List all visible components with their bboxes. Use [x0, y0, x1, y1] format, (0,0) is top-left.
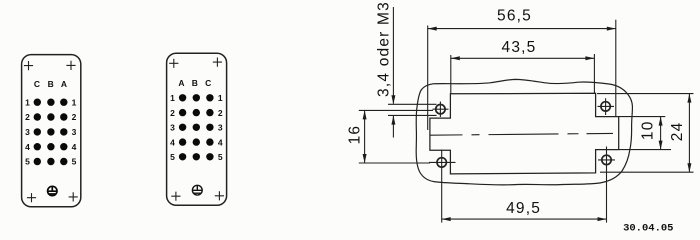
- dimension 56,5 lines and arrows: [428, 20, 616, 130]
- left connector pin contacts row 5: [34, 158, 68, 165]
- dimension 16 lines and arrows: [359, 110, 433, 163]
- panel cutout outline (stepped rectangle with side slots): [430, 93, 619, 174]
- svg-text:C: C: [205, 78, 211, 88]
- svg-text:A: A: [61, 79, 67, 89]
- svg-text:56,5: 56,5: [497, 7, 532, 24]
- dimension 24 lines and arrows: [597, 94, 694, 173]
- right connector corner mark bottom-left: [171, 192, 180, 201]
- svg-text:1: 1: [218, 93, 223, 103]
- svg-text:49,5: 49,5: [506, 200, 541, 217]
- svg-text:10: 10: [640, 120, 657, 140]
- svg-text:3: 3: [170, 123, 175, 133]
- svg-text:4: 4: [170, 137, 175, 147]
- right connector corner mark top-left: [169, 59, 178, 68]
- dimension 3,4 oder M3 leader lines and arrows: [388, 7, 437, 138]
- svg-text:B: B: [192, 78, 198, 88]
- left connector corner mark bottom-right: [69, 192, 78, 201]
- left connector earth ground symbol: [48, 186, 57, 195]
- mounting hole top-left: [433, 102, 449, 118]
- svg-text:1: 1: [25, 97, 30, 107]
- mounting hole bottom-right: [598, 147, 615, 173]
- left connector body outline: [22, 55, 81, 207]
- right connector row numbers right side: [218, 93, 223, 162]
- right connector column labels A B C: [178, 78, 211, 88]
- svg-text:5: 5: [218, 152, 223, 162]
- svg-text:1: 1: [170, 93, 175, 103]
- svg-text:16: 16: [346, 125, 363, 145]
- left connector pin contacts row 1: [34, 99, 68, 106]
- left connector pin contacts row 2: [34, 113, 68, 120]
- centerline (dashed): [431, 133, 614, 135]
- svg-text:2: 2: [72, 112, 77, 122]
- svg-text:24: 24: [669, 122, 686, 142]
- svg-text:2: 2: [25, 112, 30, 122]
- svg-text:5: 5: [25, 157, 30, 167]
- left connector corner mark top-right: [66, 61, 75, 70]
- left connector corner mark top-left: [24, 61, 33, 70]
- svg-text:C: C: [34, 79, 40, 89]
- svg-text:30.04.05: 30.04.05: [623, 223, 673, 235]
- left connector row numbers right side: [72, 97, 77, 166]
- right connector corner mark bottom-right: [215, 191, 224, 200]
- left connector corner mark bottom-left: [27, 193, 36, 202]
- right connector row numbers left side: [170, 93, 175, 162]
- svg-text:3: 3: [25, 127, 30, 137]
- right connector body outline: [167, 53, 227, 205]
- left connector pin contacts row 3: [34, 128, 68, 135]
- right connector pin contacts row 3: [179, 124, 214, 131]
- svg-text:1: 1: [72, 97, 77, 107]
- right connector pin contacts row 4: [179, 138, 214, 145]
- svg-text:4: 4: [72, 142, 77, 152]
- svg-text:3: 3: [218, 123, 223, 133]
- svg-text:4: 4: [218, 137, 223, 147]
- left connector pin contacts row 4: [34, 143, 68, 150]
- dimension 10 lines and arrows: [619, 117, 671, 150]
- right connector pin contacts row 5: [179, 153, 214, 160]
- mounting hole top-right: [598, 98, 615, 115]
- svg-text:5: 5: [170, 152, 175, 162]
- svg-text:3,4 oder M3: 3,4 oder M3: [376, 1, 393, 97]
- svg-text:2: 2: [170, 108, 175, 118]
- svg-text:43,5: 43,5: [502, 39, 537, 56]
- dimension 49,5 lines and arrows: [442, 173, 607, 223]
- right connector pin contacts row 1: [179, 94, 214, 101]
- left connector column labels C B A: [34, 79, 67, 89]
- dimension 43,5 lines and arrows: [451, 54, 595, 94]
- panel gasket outline (freeform blob): [416, 79, 632, 185]
- svg-text:A: A: [178, 78, 184, 88]
- svg-text:4: 4: [25, 142, 30, 152]
- svg-text:3: 3: [72, 127, 77, 137]
- svg-text:B: B: [48, 79, 54, 89]
- right connector corner mark top-right: [213, 58, 222, 67]
- right connector pin contacts row 2: [179, 109, 214, 116]
- left connector row numbers left side: [25, 97, 30, 166]
- mounting hole bottom-left: [429, 150, 456, 177]
- svg-text:5: 5: [72, 157, 77, 167]
- svg-text:2: 2: [218, 108, 223, 118]
- right connector earth ground symbol: [192, 185, 202, 195]
